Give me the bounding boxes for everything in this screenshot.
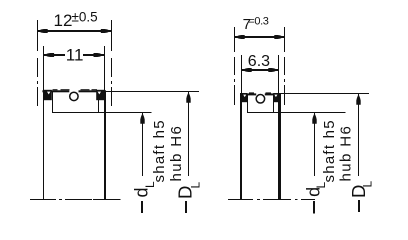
svg-text:11: 11 (66, 46, 84, 65)
svg-text:=0.3: =0.3 (248, 15, 268, 27)
svg-text:shaft h5: shaft h5 (321, 119, 338, 182)
svg-text:12: 12 (54, 11, 73, 30)
svg-text:L: L (361, 181, 375, 188)
svg-text:L: L (314, 182, 328, 189)
svg-text:shaft h5: shaft h5 (151, 119, 168, 182)
svg-text:d: d (132, 187, 152, 197)
svg-text:±0.5: ±0.5 (72, 10, 98, 25)
svg-text:L: L (189, 182, 203, 189)
svg-text:hub H6: hub H6 (168, 125, 185, 182)
svg-text:hub H6: hub H6 (338, 125, 355, 182)
svg-text:6.3: 6.3 (248, 53, 270, 70)
svg-text:L: L (143, 181, 157, 188)
